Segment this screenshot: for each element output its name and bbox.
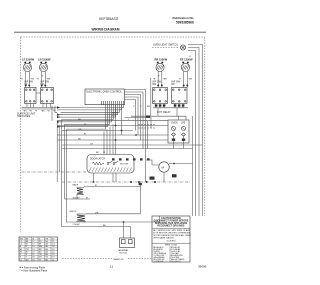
wire oven light return [150, 78, 152, 116]
svg-text:OVEN: OVEN [171, 123, 178, 125]
svg-text:1.1: 1.1 [52, 259, 55, 261]
svg-text:GY: GY [90, 143, 94, 145]
console dashed border left [20, 37, 22, 232]
wire dashdot stub 2 [138, 127, 155, 129]
header rule [14, 31, 206, 33]
svg-text:14: 14 [32, 249, 34, 251]
svg-text:SWITCHES: SWITCHES [17, 115, 31, 118]
connector P2 arrows [57, 106, 60, 128]
svg-text:GD=GOLD: GD=GOLD [171, 261, 181, 263]
latch assembly box [87, 155, 134, 174]
wire motor leads [146, 160, 193, 182]
wire ground bus right [192, 116, 194, 216]
svg-text:18: 18 [32, 259, 34, 261]
svg-text:OR: OR [78, 129, 82, 131]
wire left feeder 2 [55, 106, 57, 113]
switch infinite RF [172, 80, 188, 103]
svg-text:8": 8" [158, 76, 160, 78]
svg-text:*BK: *BK [163, 79, 167, 81]
svg-text:WITH SAME GAUGE.: WITH SAME GAUGE. [153, 237, 174, 240]
svg-text:LR 1500W: LR 1500W [38, 57, 51, 61]
junction dots web [115, 125, 137, 141]
wire bake bottom [76, 195, 78, 200]
switch infinite LF [25, 80, 37, 103]
svg-text:*BK: *BK [189, 79, 193, 81]
wire latch left drop [93, 173, 95, 183]
svg-text:BLOCK: BLOCK [120, 253, 128, 255]
svg-text:5995385966: 5995385966 [176, 20, 194, 24]
wire run vertical x140 bake-broil link [140, 187, 142, 214]
wire pin drop to latch 2 [121, 105, 123, 135]
svg-text:3000W: 3000W [73, 198, 81, 200]
svg-text:8": 8" [42, 76, 44, 78]
svg-text:H1: H1 [20, 249, 22, 251]
svg-text:(CODES): (CODES) [167, 241, 176, 243]
wire right cluster link [153, 107, 188, 109]
wire long bus 2 [57, 125, 168, 127]
svg-text:BK W: BK W [112, 113, 119, 115]
wire L1 bus right [188, 45, 203, 217]
lamp oven light [180, 45, 185, 50]
resistor bake element [73, 184, 85, 200]
wire labels mid web [78, 106, 150, 146]
svg-text:*BK: *BK [47, 79, 51, 81]
wire latch drops [113, 173, 116, 182]
junction dots chassis [130, 181, 156, 183]
console dashed border top [21, 36, 205, 38]
svg-text:R V: R V [112, 116, 116, 118]
wire EOC pin comb [57, 105, 124, 129]
svg-text:ELECTRONIC OVEN CONTROL: ELECTRONIC OVEN CONTROL [87, 91, 123, 94]
wire drops to latch box [104, 124, 113, 154]
svg-text:BU: BU [147, 106, 150, 108]
wire chassis junction tick x140 [139, 182, 142, 187]
wire EOC right fan [125, 90, 146, 183]
wire left vertical run C [67, 129, 160, 222]
wire long bus 1 [57, 120, 168, 122]
surface unit LR [38, 57, 51, 82]
wire right box drops [156, 104, 183, 108]
svg-text:12: 12 [32, 241, 34, 243]
console dashed border bottom [62, 258, 152, 260]
console dashed border right [204, 37, 206, 216]
svg-text:KEF355ASG: KEF355ASG [99, 17, 119, 21]
junction squares right [157, 85, 188, 87]
parts table [19, 237, 58, 261]
junction blob center [146, 116, 150, 118]
wire lead labels right [153, 79, 193, 81]
svg-text:MOTOR: MOTOR [120, 164, 129, 166]
wire long bus 5 [57, 139, 168, 141]
wire right cluster bus [131, 115, 186, 117]
wire SU LF leads down [26, 82, 30, 88]
resistor broil element [70, 211, 87, 226]
svg-text:RR 1500W: RR 1500W [155, 57, 168, 61]
svg-text:OVEN LIGHT SWITCH: OVEN LIGHT SWITCH [153, 44, 178, 47]
wire right cluster drop [185, 116, 187, 120]
lamp assembly box [168, 120, 189, 143]
wire left bus 2 [22, 108, 56, 110]
svg-text:BAKE: BAKE [73, 184, 79, 187]
wire left vertical run D [56, 121, 58, 182]
wire left feeder 1 [51, 106, 53, 121]
wire L2 bus right [188, 51, 196, 217]
svg-text:L1: L1 [20, 241, 22, 243]
svg-text:DOOR LATCH: DOOR LATCH [90, 158, 105, 161]
svg-text:OR: OR [95, 212, 99, 214]
svg-text:*W: *W [47, 111, 50, 113]
svg-text:*BK: *BK [31, 79, 35, 81]
svg-text:WIRING DIAGRAM: WIRING DIAGRAM [92, 28, 120, 32]
wire left vertical run A [62, 120, 131, 227]
wire long bus 6 [62, 144, 203, 146]
wire left vertical run E [58, 126, 60, 173]
wire link between left switches [36, 92, 41, 94]
svg-text:2700W: 2700W [73, 224, 81, 226]
wire chassis line dash-dot [62, 181, 190, 183]
wire bake feed top [84, 186, 141, 188]
svg-text:MAINTOP: MAINTOP [114, 258, 124, 261]
wire corner x151 [125, 118, 152, 129]
surface unit RF [180, 57, 193, 82]
svg-text:2.1: 2.1 [52, 241, 55, 243]
wire dashdot stub 1 [138, 124, 155, 126]
svg-text:*BK: *BK [41, 111, 45, 113]
wire switch drops left [27, 104, 51, 108]
switch infinite LR [41, 80, 54, 103]
publication no text [173, 16, 195, 24]
wire broil feed [86, 213, 141, 215]
labels above latch box [96, 152, 105, 154]
wire blob drops to bus [158, 108, 177, 116]
junction broil run [123, 221, 125, 223]
label connector [118, 249, 130, 255]
wire lamp drops [172, 136, 185, 148]
terminal blob row mid [112, 158, 150, 160]
junction squares left [25, 85, 46, 87]
wire left bus 1 [22, 107, 61, 109]
svg-text:39096: 39096 [198, 265, 207, 269]
svg-text:2.0: 2.0 [52, 249, 55, 251]
wire long bus 4 [57, 134, 168, 136]
svg-text:RF 1250W: RF 1250W [180, 57, 193, 61]
wire left vertical run B [65, 124, 91, 199]
wire SU RF leads down [184, 82, 188, 88]
label motor rotation [172, 174, 177, 177]
svg-text:RF: RF [172, 83, 176, 86]
caption surface unit switches [17, 112, 36, 118]
wire color labels left bus [23, 111, 56, 113]
op-amp EOC box electronic oven control [85, 89, 125, 105]
wire oven light dashed [152, 47, 178, 49]
svg-text:*=TRACER: *=TRACER [153, 260, 164, 263]
svg-text:BROIL: BROIL [70, 211, 77, 213]
surface unit RR [155, 57, 168, 82]
terminal blobs right cluster [155, 104, 185, 106]
wire connector leads [124, 222, 131, 238]
wire pin drop to latch 1 [115, 105, 117, 155]
svg-text:RR: RR [153, 83, 157, 86]
svg-text:LF 1250W: LF 1250W [22, 57, 35, 61]
connector blob left of motor [150, 177, 155, 180]
info box [152, 216, 192, 263]
svg-text:11: 11 [110, 265, 113, 269]
wire lamp feed [178, 116, 180, 120]
motor convection fan M1 [159, 162, 169, 172]
wire chassis dashed left segment [22, 171, 88, 173]
switch infinite RR [153, 80, 168, 103]
wire long bus 7 [62, 148, 193, 150]
svg-text:W: W [103, 152, 105, 154]
wire SU LR leads down [42, 82, 46, 88]
wire lead labels left [21, 79, 51, 81]
svg-text:LPS: LPS [181, 123, 186, 125]
svg-text:RECONNECT GROUNDS: RECONNECT GROUNDS [158, 225, 185, 227]
svg-text:POT. RELAY: POT. RELAY [157, 111, 171, 114]
surface unit LF [22, 57, 35, 82]
wire hook up right [159, 216, 161, 222]
wire corner x147 [147, 121, 149, 149]
svg-text:TERMINAL: TERMINAL [118, 249, 130, 252]
connector P1 [120, 238, 135, 248]
wire long bus 3 [62, 130, 133, 132]
svg-text:* = Non-Illustrated Parts: * = Non-Illustrated Parts [20, 269, 48, 273]
wire N bus right [188, 48, 199, 217]
wire SU RR leads down [158, 82, 162, 88]
